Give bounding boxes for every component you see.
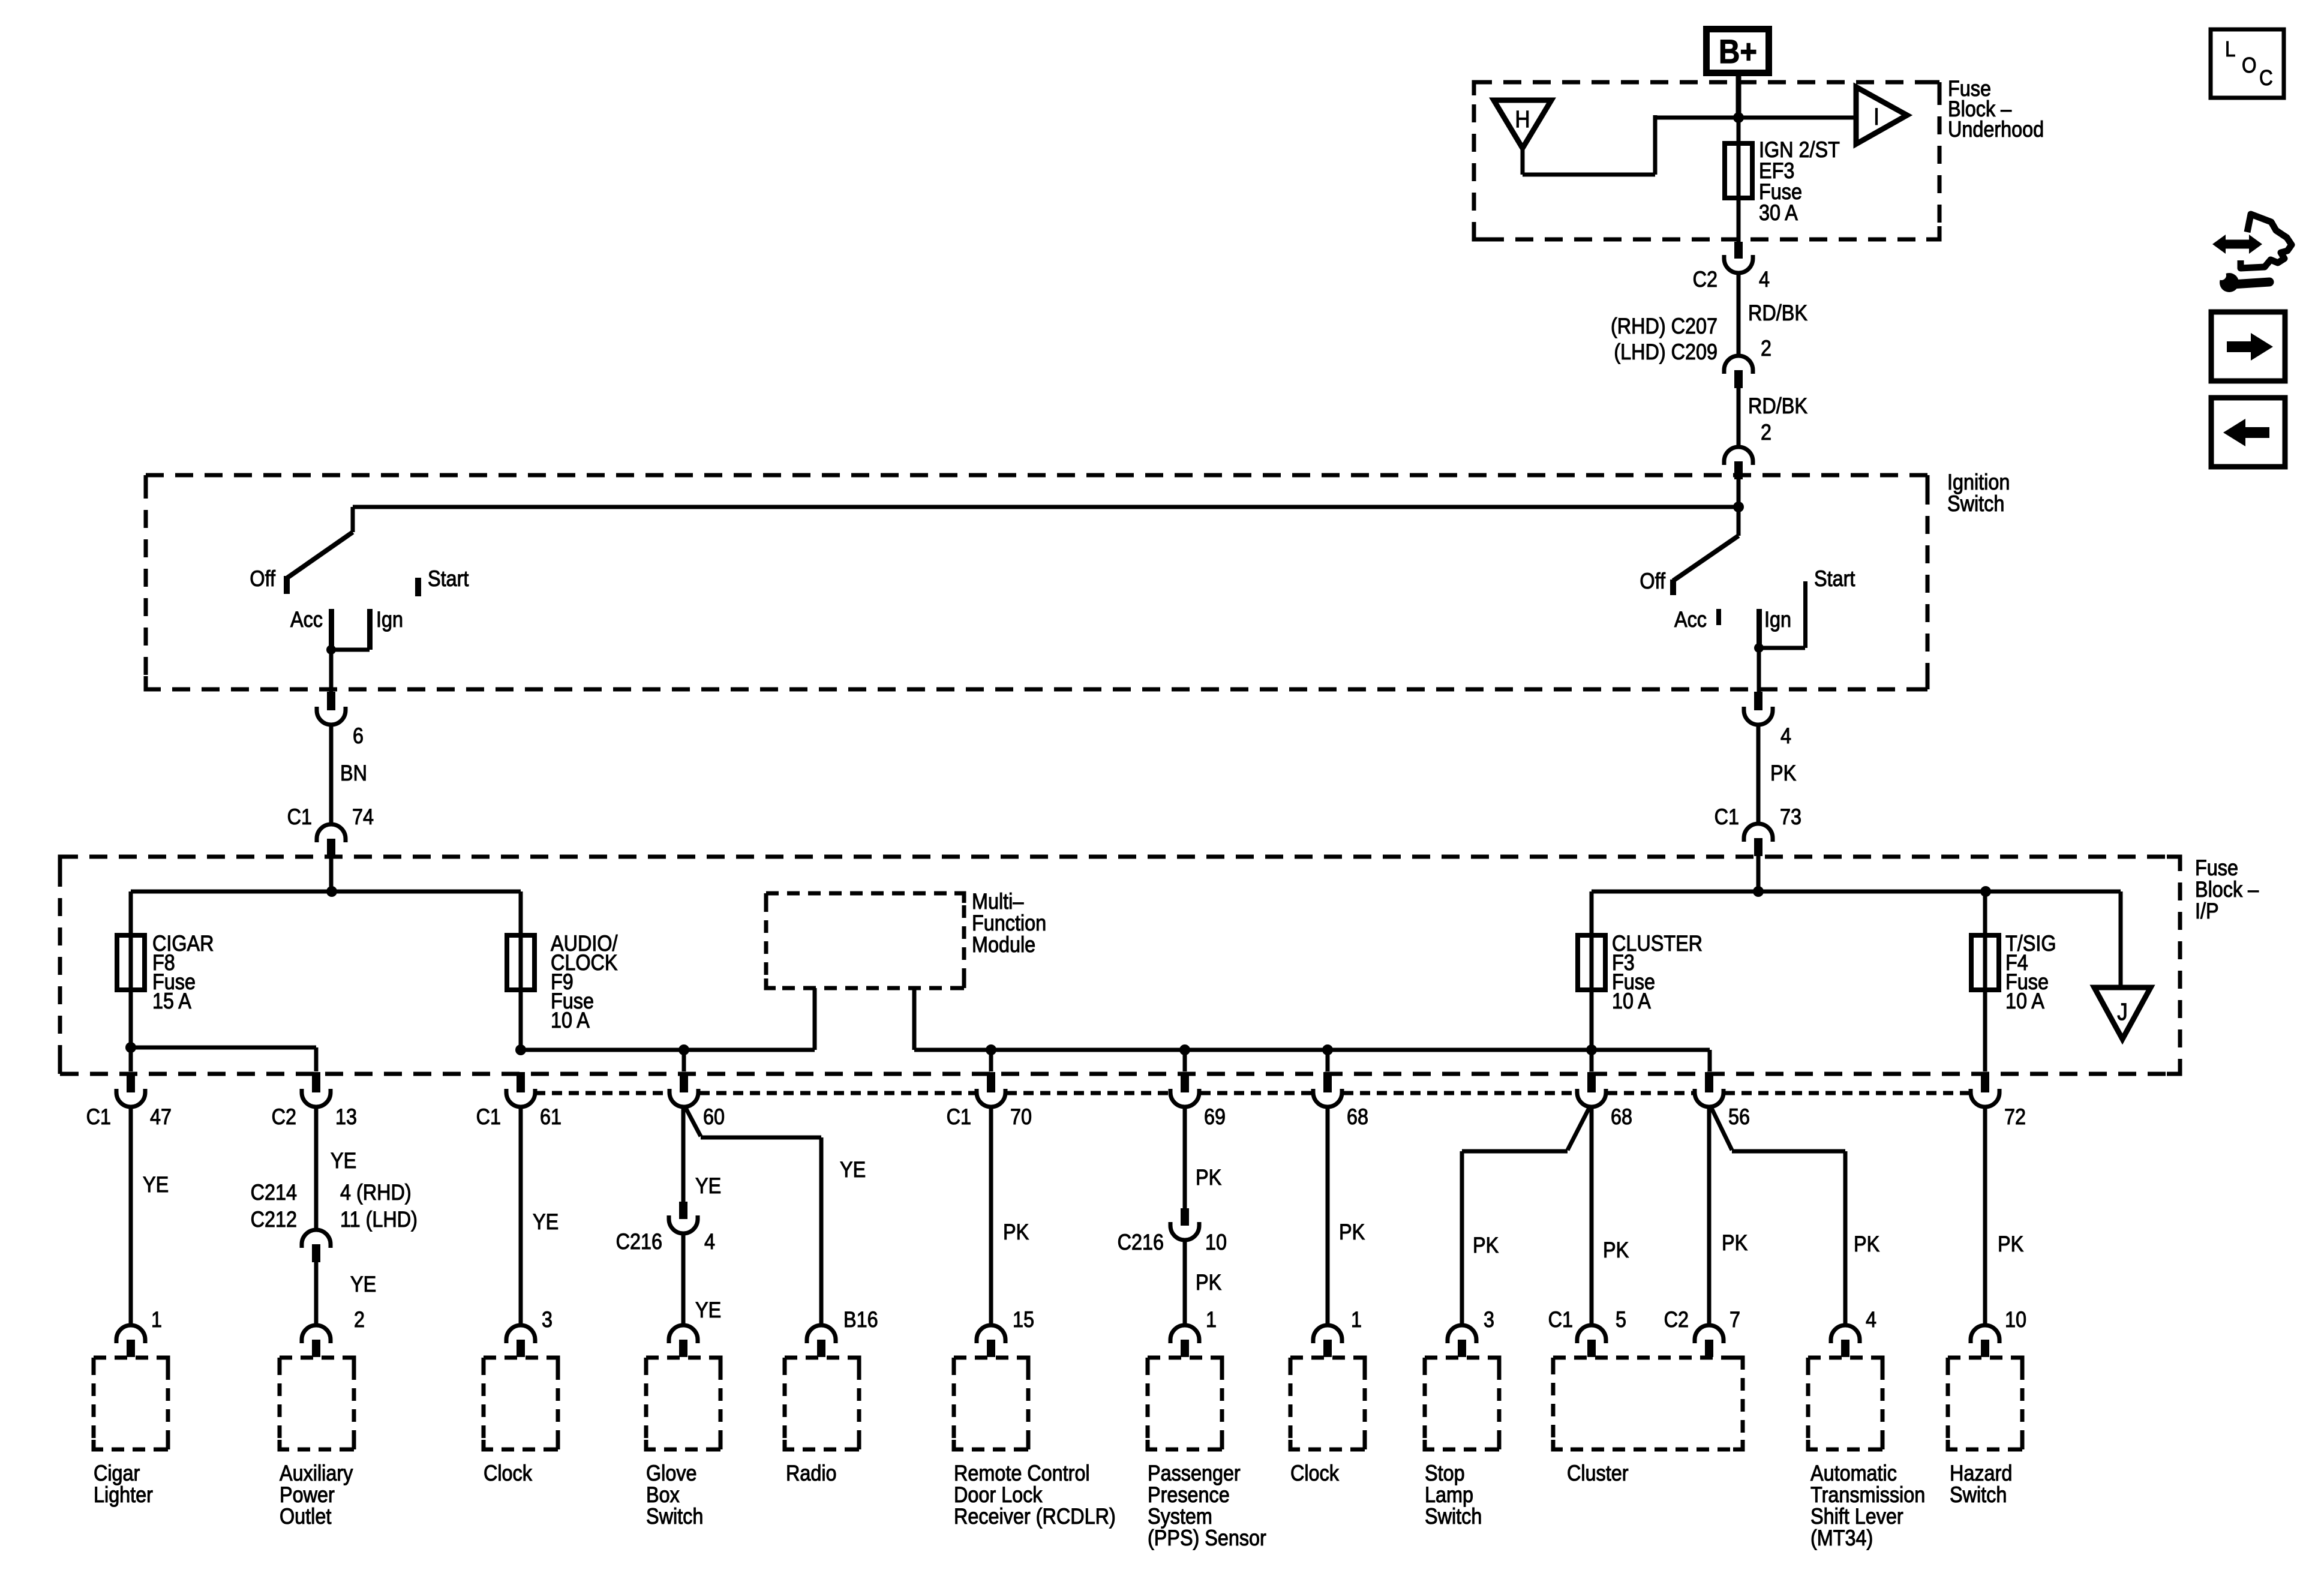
svg-text:Start: Start [428, 567, 469, 591]
svg-text:Acc: Acc [290, 608, 323, 632]
svg-text:C1: C1 [1715, 805, 1739, 829]
svg-text:Off: Off [250, 567, 275, 591]
svg-text:Underhood: Underhood [1948, 118, 2044, 142]
svg-text:Module: Module [972, 933, 1035, 957]
svg-text:Glove: Glove [646, 1461, 697, 1485]
svg-text:5: 5 [1616, 1308, 1626, 1332]
svg-text:Hazard: Hazard [1950, 1461, 2012, 1485]
svg-text:Automatic: Automatic [1810, 1461, 1897, 1485]
svg-text:11 (LHD): 11 (LHD) [340, 1208, 418, 1232]
svg-text:Receiver (RCDLR): Receiver (RCDLR) [954, 1505, 1116, 1529]
svg-text:68: 68 [1347, 1105, 1368, 1129]
svg-text:47: 47 [150, 1105, 172, 1129]
svg-text:C1: C1 [476, 1105, 501, 1129]
svg-text:Remote Control: Remote Control [954, 1461, 1090, 1485]
svg-text:68: 68 [1611, 1105, 1632, 1129]
svg-text:YE: YE [695, 1298, 721, 1322]
svg-text:Passenger: Passenger [1148, 1461, 1241, 1485]
svg-text:I: I [1873, 103, 1879, 130]
svg-text:4 (RHD): 4 (RHD) [340, 1181, 412, 1205]
svg-text:System: System [1148, 1505, 1212, 1529]
svg-text:30 A: 30 A [1759, 201, 1798, 225]
svg-text:Cigar: Cigar [94, 1461, 140, 1485]
svg-text:56: 56 [1728, 1105, 1750, 1129]
svg-text:Clock: Clock [484, 1461, 533, 1485]
svg-text:4: 4 [1759, 268, 1770, 292]
svg-text:69: 69 [1204, 1105, 1226, 1129]
svg-text:10 A: 10 A [1612, 989, 1652, 1013]
svg-text:C214: C214 [251, 1181, 297, 1205]
svg-text:Clock: Clock [1290, 1461, 1340, 1485]
svg-text:C: C [2259, 66, 2273, 90]
svg-text:Power: Power [280, 1483, 335, 1507]
svg-text:(MT34): (MT34) [1810, 1526, 1873, 1550]
svg-text:J: J [2117, 998, 2128, 1025]
svg-text:2: 2 [1761, 337, 1771, 361]
svg-text:YE: YE [695, 1174, 721, 1198]
svg-text:BN: BN [340, 761, 367, 785]
svg-text:(RHD) C207: (RHD) C207 [1611, 314, 1718, 338]
svg-text:4: 4 [1866, 1308, 1876, 1332]
svg-text:YE: YE [533, 1210, 559, 1234]
svg-text:10 A: 10 A [2005, 989, 2045, 1013]
svg-text:H: H [1515, 106, 1530, 133]
svg-text:Cluster: Cluster [1567, 1461, 1629, 1485]
svg-text:15 A: 15 A [152, 989, 192, 1013]
svg-text:C2: C2 [272, 1105, 296, 1129]
svg-text:YE: YE [331, 1149, 356, 1173]
svg-text:70: 70 [1010, 1105, 1032, 1129]
svg-text:Function: Function [972, 911, 1046, 935]
svg-text:Start: Start [1814, 567, 1855, 591]
svg-text:4: 4 [704, 1230, 715, 1254]
svg-text:1: 1 [1206, 1308, 1217, 1332]
svg-text:Switch: Switch [646, 1505, 703, 1529]
svg-text:10: 10 [2005, 1308, 2026, 1332]
svg-text:I/P: I/P [2195, 899, 2219, 923]
svg-text:Stop: Stop [1425, 1461, 1465, 1485]
svg-text:C1: C1 [86, 1105, 111, 1129]
svg-text:Multi–: Multi– [972, 890, 1024, 914]
svg-text:C1: C1 [1548, 1308, 1573, 1332]
svg-text:72: 72 [2004, 1105, 2026, 1129]
svg-text:YE: YE [143, 1173, 169, 1197]
svg-text:Switch: Switch [1950, 1483, 2007, 1507]
svg-text:C1: C1 [287, 805, 312, 829]
svg-text:PK: PK [1003, 1220, 1029, 1244]
svg-text:Outlet: Outlet [280, 1505, 332, 1529]
svg-text:61: 61 [540, 1105, 562, 1129]
svg-text:C2: C2 [1693, 268, 1718, 292]
svg-text:6: 6 [353, 724, 364, 748]
svg-text:Acc: Acc [1674, 608, 1707, 632]
svg-text:PK: PK [1998, 1232, 2023, 1256]
svg-text:Switch: Switch [1947, 492, 2004, 516]
svg-text:PK: PK [1339, 1220, 1365, 1244]
svg-text:1: 1 [1351, 1308, 1362, 1332]
svg-text:C216: C216 [616, 1230, 662, 1254]
svg-text:Box: Box [646, 1483, 680, 1507]
svg-text:O: O [2242, 53, 2257, 77]
svg-text:RD/BK: RD/BK [1748, 301, 1807, 325]
svg-text:Ign: Ign [376, 608, 403, 632]
svg-text:10 A: 10 A [551, 1008, 590, 1032]
svg-text:Lighter: Lighter [94, 1483, 153, 1507]
svg-text:C1: C1 [947, 1105, 971, 1129]
svg-text:4: 4 [1780, 724, 1791, 748]
svg-text:Door Lock: Door Lock [954, 1483, 1043, 1507]
svg-text:13: 13 [335, 1105, 357, 1129]
svg-text:7: 7 [1730, 1308, 1740, 1332]
svg-text:10: 10 [1205, 1230, 1227, 1254]
svg-text:RD/BK: RD/BK [1748, 394, 1807, 418]
svg-text:73: 73 [1780, 805, 1801, 829]
svg-text:Shift Lever: Shift Lever [1810, 1505, 1903, 1529]
svg-text:PK: PK [1603, 1238, 1629, 1262]
svg-text:1: 1 [151, 1308, 162, 1332]
svg-text:PK: PK [1722, 1231, 1747, 1255]
svg-text:15: 15 [1013, 1308, 1034, 1332]
svg-text:Fuse: Fuse [2195, 856, 2238, 880]
svg-text:Lamp: Lamp [1425, 1483, 1473, 1507]
svg-text:Ignition: Ignition [1947, 470, 2010, 494]
svg-text:B16: B16 [843, 1308, 878, 1332]
svg-text:C2: C2 [1664, 1308, 1689, 1332]
svg-text:PK: PK [1854, 1232, 1879, 1256]
svg-text:B+: B+ [1719, 33, 1757, 71]
svg-text:Transmission: Transmission [1810, 1483, 1925, 1507]
svg-text:C212: C212 [251, 1208, 297, 1232]
svg-text:L: L [2225, 37, 2236, 61]
svg-text:Ign: Ign [1764, 608, 1791, 632]
svg-text:(PPS) Sensor: (PPS) Sensor [1148, 1526, 1266, 1550]
svg-text:Block –: Block – [2195, 878, 2259, 902]
svg-text:PK: PK [1473, 1233, 1499, 1257]
svg-text:C216: C216 [1118, 1230, 1164, 1254]
svg-text:PK: PK [1770, 761, 1796, 785]
svg-text:3: 3 [542, 1308, 553, 1332]
svg-text:Auxiliary: Auxiliary [280, 1461, 353, 1485]
svg-text:Radio: Radio [786, 1461, 837, 1485]
svg-text:(LHD) C209: (LHD) C209 [1614, 340, 1718, 364]
svg-text:2: 2 [1761, 421, 1771, 445]
svg-text:Off: Off [1640, 569, 1665, 593]
svg-text:74: 74 [352, 805, 374, 829]
svg-text:Presence: Presence [1148, 1483, 1230, 1507]
svg-text:PK: PK [1196, 1271, 1221, 1295]
svg-text:60: 60 [703, 1105, 725, 1129]
svg-text:2: 2 [354, 1308, 365, 1332]
svg-text:Switch: Switch [1425, 1505, 1482, 1529]
svg-text:YE: YE [350, 1272, 376, 1296]
svg-text:PK: PK [1196, 1166, 1221, 1190]
svg-text:YE: YE [840, 1158, 866, 1182]
svg-text:3: 3 [1484, 1308, 1494, 1332]
